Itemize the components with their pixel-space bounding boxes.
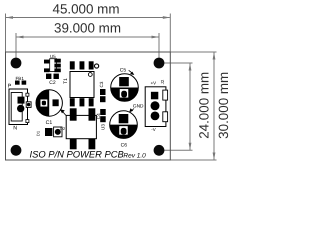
svg-text:+V: +V: [151, 81, 157, 86]
transformer T1 pin1 marker: [88, 73, 92, 77]
dimension 39.000 mm line: [16, 33, 159, 63]
svg-text:C3: C3: [99, 81, 104, 87]
capacitor C1 body: [36, 90, 62, 116]
diode D1 square pad: [45, 128, 52, 136]
svg-text:J2: J2: [160, 79, 165, 84]
capacitor C1 negative pad: [40, 99, 48, 107]
capacitor C6 positive pad: [119, 114, 129, 123]
board outline: [6, 52, 171, 160]
svg-text:U5: U5: [50, 54, 56, 59]
mounting hole bottom-right: [154, 145, 165, 156]
svg-text:ISO P/N POWER PCB: ISO P/N POWER PCB: [30, 149, 124, 160]
mounting hole top-left: [11, 58, 22, 69]
transformer T1 pads: [70, 61, 75, 69]
connector J2 pad 3 (round): [151, 112, 160, 121]
svg-text:C6: C6: [121, 142, 128, 148]
svg-text:39.000 mm: 39.000 mm: [54, 21, 121, 36]
svg-text:FB1: FB1: [16, 76, 25, 81]
svg-text:N: N: [13, 126, 17, 132]
connector J2 right key bumps: [163, 90, 168, 100]
capacitor C2 pads: [46, 74, 51, 79]
connector P1 outline: [9, 89, 28, 125]
via near T1: [95, 64, 99, 68]
connector P1 pad 1 (square): [18, 97, 25, 104]
connector J2 outline: [145, 87, 166, 127]
dimension 24.000 mm line: [159, 63, 193, 150]
svg-text:GND: GND: [133, 104, 144, 110]
module U3 pads: [70, 108, 77, 120]
svg-text:D1: D1: [36, 130, 41, 136]
connector J2 pad 2 (round): [151, 101, 160, 110]
regulator U5 pads: [44, 60, 49, 64]
ferrite bead FB1 pads: [15, 81, 20, 85]
mounting hole bottom-left: [11, 145, 22, 156]
dimension 45.000 mm line: [6, 14, 171, 53]
svg-text:45.000 mm: 45.000 mm: [53, 1, 120, 16]
mounting hole top-right: [154, 58, 165, 69]
capacitor C4 pads: [100, 109, 106, 115]
svg-text:D2: D2: [60, 126, 66, 131]
capacitor C1 leader arrow: [63, 112, 67, 116]
capacitor C3 pads: [100, 89, 106, 95]
svg-text:C1: C1: [46, 120, 53, 126]
dimension 30.000 mm line: [170, 52, 216, 160]
connector P1 pad 2 (round): [17, 105, 24, 112]
svg-text:T1: T1: [63, 78, 69, 84]
capacitor C5 positive pad: [119, 77, 129, 86]
capacitor C5 negative pad: [119, 89, 128, 98]
module U3 body: [66, 115, 96, 138]
svg-text:-V: -V: [151, 127, 155, 132]
capacitor C6 body: [110, 111, 138, 139]
test point near P1: [26, 102, 31, 108]
svg-text:Rev 1.0: Rev 1.0: [123, 153, 146, 160]
svg-text:30.000 mm: 30.000 mm: [216, 72, 230, 139]
regulator U5 body: [50, 59, 57, 72]
transformer T1 body: [70, 72, 94, 98]
diode D1 round pad: [54, 127, 62, 137]
connector J2 pad 1 (square): [151, 92, 158, 100]
connector P1 inner outline: [11, 93, 22, 122]
svg-text:C5: C5: [120, 67, 127, 73]
capacitor C1 positive pad: [53, 99, 59, 106]
svg-text:U3: U3: [100, 124, 105, 130]
connector P1 right key bumps: [26, 93, 29, 96]
capacitor C5 body: [111, 74, 139, 102]
svg-text:C2: C2: [49, 80, 56, 86]
svg-text:24.000 mm: 24.000 mm: [196, 72, 211, 139]
capacitor C6 negative pad: [119, 126, 128, 135]
